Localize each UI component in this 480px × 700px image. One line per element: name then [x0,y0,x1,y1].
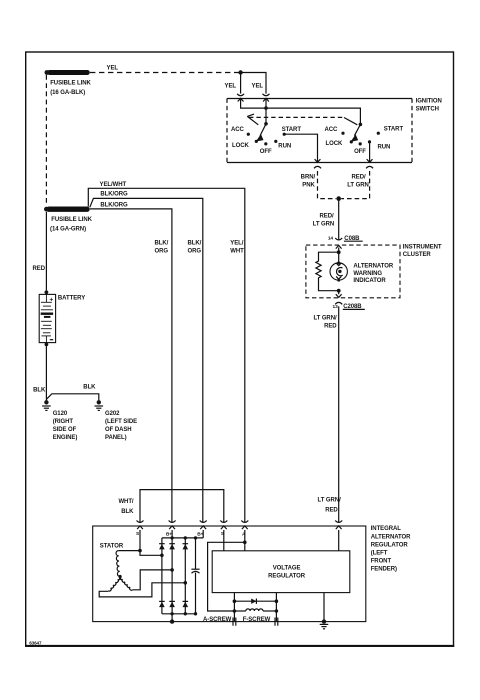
svg-text:RED: RED [325,508,338,514]
svg-text:PNK: PNK [302,183,315,189]
pin labels [136,531,246,538]
svg-text:STATOR: STATOR [100,543,124,549]
instrument cluster box [306,245,442,298]
ignition switch box [227,98,442,162]
diode D1 top [159,544,165,550]
svg-text:G120: G120 [53,411,68,417]
connector C08B [328,236,363,249]
svg-text:FENDER): FENDER) [371,567,397,573]
svg-text:RED/: RED/ [319,214,333,220]
svg-text:FRONT: FRONT [371,559,392,565]
svg-text:REGULATOR: REGULATOR [268,573,306,579]
svg-text:F-SCREW: F-SCREW [243,617,271,623]
svg-text:14: 14 [328,236,334,242]
svg-text:(LEFT: (LEFT [371,551,388,557]
node YEL junction [238,70,242,74]
wire BLK branch to G202 [46,385,98,401]
svg-text:FUSIBLE LINK: FUSIBLE LINK [50,81,91,87]
A-SCREW terminal [203,617,236,626]
ground G120 [42,400,77,441]
svg-text:WARNING: WARNING [353,271,382,277]
svg-text:(RIGHT: (RIGHT [53,419,74,425]
wire LT GRN/RED to alternator [313,306,341,522]
svg-text:RED/: RED/ [352,175,366,181]
ignition switch internal feed wires [241,99,361,124]
svg-text:ACC: ACC [324,127,338,133]
wire WHT/BLK jumper [118,490,223,523]
wire RED/LT GRN to instrument cluster [313,199,339,240]
svg-text:CLUSTER: CLUSTER [403,252,432,258]
svg-text:RUN: RUN [378,145,391,151]
wire YEL (dashed, fusible link to junction) [90,65,241,72]
svg-text:YEL: YEL [252,84,264,90]
wire A into regulator and A branch [208,530,247,611]
svg-text:SWITCH: SWITCH [416,106,439,112]
svg-text:LOCK: LOCK [232,143,249,149]
svg-text:LT GRN/: LT GRN/ [313,315,337,321]
svg-text:BLK: BLK [33,387,46,393]
node splice BRN/PNK + RED/LT GRN [336,196,341,201]
svg-text:RUN: RUN [278,144,291,150]
svg-text:YEL: YEL [225,84,237,90]
svg-text:RED: RED [324,323,337,329]
diode D3 top [183,544,189,550]
alternator warning indicator lamp [330,261,394,284]
rotor field coil [234,609,276,611]
alternator box connectors (cups and arrows) [137,521,343,530]
svg-text:WHT/: WHT/ [118,499,133,505]
fusible link F2 (14 GA-GRN) [44,207,93,233]
svg-text:63647: 63647 [29,641,42,646]
stator [99,530,185,597]
wire BRN/PNK from START [284,134,336,198]
svg-text:ALTERNATOR: ALTERNATOR [353,264,393,270]
svg-text:START: START [384,126,404,132]
ganged-switch dashed linkage [247,114,357,125]
field diode [234,599,276,604]
svg-text:BLK: BLK [121,509,134,515]
F-screw leg [275,593,279,622]
svg-text:LT GRN/: LT GRN/ [318,498,342,504]
svg-text:YEL/: YEL/ [230,240,243,246]
svg-text:A-SCREW: A-SCREW [203,617,232,623]
svg-text:ORG: ORG [155,248,169,254]
rectifier bridge [160,530,203,624]
diode D2 top [169,544,175,550]
connector C208B [333,291,365,310]
svg-text:IGNITION: IGNITION [416,98,442,104]
integral alternator regulator box [93,526,411,622]
svg-text:ACC: ACC [231,127,245,133]
wire RED battery feed [33,212,47,290]
wire BLK/ORG (first) [90,202,172,522]
wire YEL left branch into ignition switch [225,73,245,102]
svg-text:+: + [49,297,53,304]
svg-text:OF DASH: OF DASH [105,427,132,433]
battery [39,290,85,346]
svg-text:ORG: ORG [188,248,202,254]
wire YEL right branch into ignition switch [241,73,270,102]
svg-text:REGULATOR: REGULATOR [371,542,409,548]
svg-text:(14 GA-GRN): (14 GA-GRN) [50,227,86,233]
svg-text:ALTERNATOR: ALTERNATOR [371,534,411,540]
diode D4 bottom [159,601,165,607]
svg-text:BLK/ORG: BLK/ORG [100,192,128,198]
svg-text:ENGINE): ENGINE) [53,435,78,441]
svg-text:OFF: OFF [260,149,272,155]
wire RED/LT GRN from RUN [341,144,373,199]
svg-text:(16 GA-BLK): (16 GA-BLK) [50,90,85,96]
svg-text:BATTERY: BATTERY [58,295,85,301]
svg-text:(LEFT SIDE: (LEFT SIDE [105,419,137,425]
wire LT GRN/RED into regulator [338,530,340,551]
svg-text:LT GRN: LT GRN [313,221,335,227]
svg-text:SIDE OF: SIDE OF [53,427,77,433]
svg-text:LT GRN: LT GRN [347,183,369,189]
resistor (shunt) [316,252,339,291]
svg-text:WHT: WHT [230,248,244,254]
svg-text:YEL: YEL [107,65,119,71]
capacitor [191,538,199,614]
ignition switch pole 2 [324,123,403,156]
svg-text:START: START [282,127,302,133]
svg-text:OFF: OFF [354,149,366,155]
svg-text:INSTRUMENT: INSTRUMENT [403,245,442,251]
svg-text:YEL/WHT: YEL/WHT [100,182,127,188]
A-screw leg [233,593,237,622]
regulator case ground [320,593,329,629]
svg-text:FUSIBLE LINK: FUSIBLE LINK [51,217,92,223]
node cluster top [337,250,341,254]
svg-text:VOLTAGE: VOLTAGE [273,565,301,571]
wire BLK/ORG (second) [90,192,203,523]
svg-text:RED: RED [33,266,46,272]
ground G202 [95,400,138,441]
svg-text:13: 13 [333,304,339,310]
voltage regulator [212,551,350,593]
svg-text:BRN/: BRN/ [301,175,316,181]
svg-text:INDICATOR: INDICATOR [353,278,386,284]
wire inside cluster [338,248,340,263]
svg-text:PANEL): PANEL) [105,435,127,441]
svg-text:BLK/ORG: BLK/ORG [100,202,128,208]
svg-text:INTEGRAL: INTEGRAL [371,526,402,532]
svg-text:BLK/: BLK/ [155,240,169,246]
node cluster bottom [337,289,341,293]
svg-text:BLK: BLK [83,385,96,391]
wire BLK battery to ground [33,344,46,400]
wire S into regulator [223,530,225,551]
page border frame [25,52,454,646]
wire YEL/WHT [88,182,245,523]
dashed feed wire from F1 to F2 [45,75,47,206]
ignition switch pole 1 [231,122,301,155]
svg-text:BLK/: BLK/ [188,240,202,246]
F-SCREW terminal [243,617,278,626]
diode D5 bottom [169,601,175,607]
svg-text:LOCK: LOCK [326,141,343,147]
svg-text:G202: G202 [105,411,120,417]
fusible link F1 (16 GA-BLK) [45,70,92,96]
diode D6 bottom [183,601,189,607]
